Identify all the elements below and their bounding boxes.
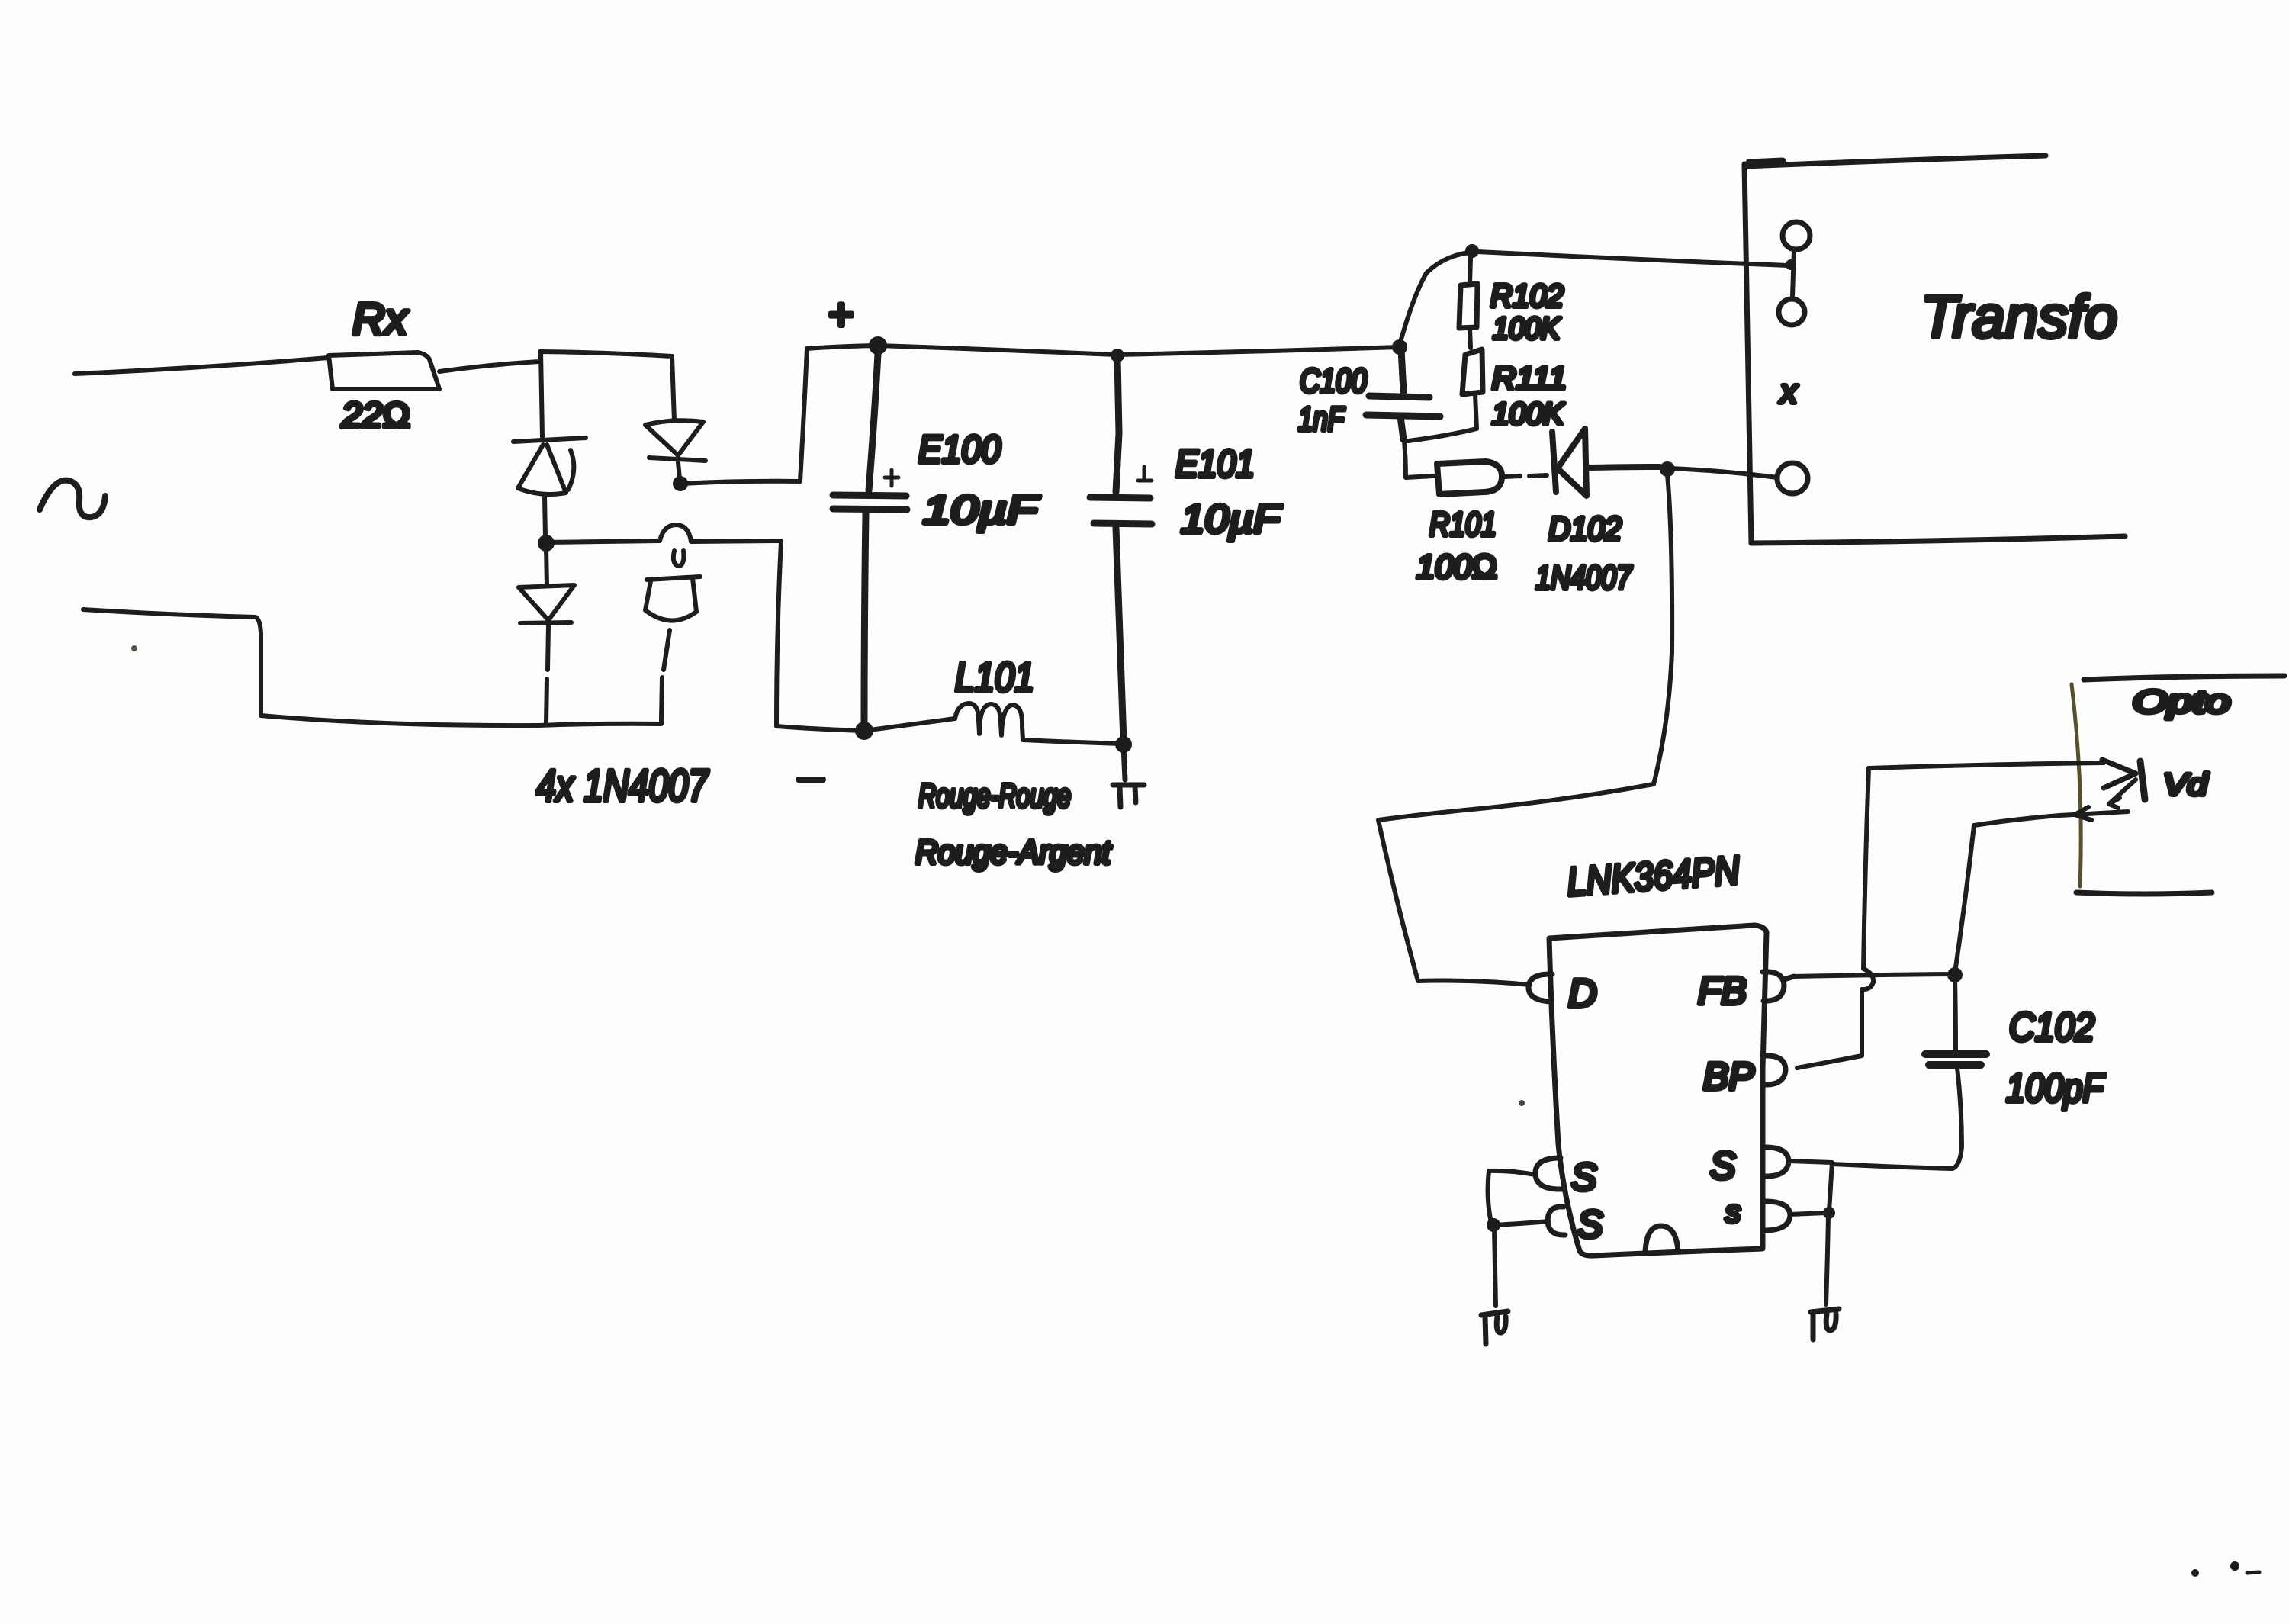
node: + rail junction bbox=[869, 336, 887, 355]
wire: C100 bottom to R101 bbox=[1404, 441, 1433, 478]
svg-text:100K: 100K bbox=[1492, 397, 1565, 431]
svg-text:1nF: 1nF bbox=[1298, 400, 1345, 438]
svg-text:BP: BP bbox=[1703, 1055, 1754, 1098]
svg-text:S: S bbox=[1710, 1144, 1735, 1187]
ground (left S) bbox=[1481, 1311, 1508, 1344]
node: bridge mid-right junction bbox=[673, 476, 688, 491]
svg-text:FB: FB bbox=[1698, 970, 1747, 1012]
minus sign bbox=[799, 777, 823, 783]
optocoupler LED cathode bar bbox=[2140, 761, 2145, 799]
bridge diode 1 (left top) bbox=[513, 438, 586, 494]
ground (filter) bbox=[1113, 746, 1144, 807]
capacitor E100 bbox=[833, 354, 907, 725]
svg-text:1N4007: 1N4007 bbox=[1535, 559, 1632, 597]
ground (right S) bbox=[1811, 1309, 1839, 1339]
svg-text:100pF: 100pF bbox=[2006, 1066, 2106, 1111]
wire: junction down to LNK D pin (long) bbox=[1378, 474, 1672, 985]
optocoupler Opto box bbox=[2084, 676, 2284, 680]
svg-text:Transfo: Transfo bbox=[1921, 283, 2117, 350]
IC pin S left-lower bump bbox=[1548, 1207, 1565, 1235]
transformer pin 1 bbox=[1783, 222, 1810, 249]
svg-text:S: S bbox=[1577, 1203, 1603, 1246]
svg-text:Vd: Vd bbox=[2163, 768, 2209, 802]
capacitor E101 bbox=[1090, 358, 1152, 741]
diode D102 bbox=[1552, 429, 1660, 496]
svg-text:4x 1N4007: 4x 1N4007 bbox=[536, 761, 709, 811]
IC notch bbox=[1645, 1226, 1678, 1253]
stray ink dot near IC label bbox=[1519, 1100, 1525, 1106]
svg-text:R111: R111 bbox=[1492, 360, 1567, 396]
wire: R101 to D102 (dashed look) bbox=[1505, 475, 1547, 477]
svg-text:R101: R101 bbox=[1429, 506, 1497, 543]
svg-text:S: S bbox=[1571, 1156, 1596, 1198]
node: C100 junction bbox=[1392, 339, 1407, 355]
AC source symbol ~ bbox=[40, 481, 105, 518]
IC pin S left-upper bump bbox=[1535, 1158, 1562, 1189]
node: E101 top junction bbox=[1111, 349, 1124, 362]
wire: bridge left branch upper bbox=[541, 352, 542, 437]
resistor Rx bbox=[329, 352, 439, 389]
wire: D1 to mid-left node bbox=[545, 495, 545, 539]
wire: Rx to bridge top bbox=[439, 362, 538, 371]
svg-text:L101: L101 bbox=[955, 654, 1034, 700]
node: bottom-right junction bbox=[1115, 736, 1132, 753]
IC U1 LNK364PN box bbox=[1549, 925, 1767, 1256]
svg-text:Opto: Opto bbox=[2133, 683, 2230, 719]
wire: FB junction up to opto return bbox=[1955, 825, 1974, 973]
wire: top rail (+ to C100 node) bbox=[807, 346, 1400, 355]
node: E100 bottom junction bbox=[855, 722, 873, 740]
resistor R111 bbox=[1462, 349, 1483, 394]
E100 polarity + bbox=[885, 470, 899, 486]
svg-text:E101: E101 bbox=[1175, 442, 1255, 485]
svg-text:R102: R102 bbox=[1490, 278, 1564, 314]
optocoupler LED anode wire + arrow bbox=[1869, 763, 2104, 768]
wire: AC input line 2 (bottom) with step bbox=[83, 609, 538, 725]
wire: minus down to bottom rail bbox=[776, 542, 781, 726]
svg-text:10µF: 10µF bbox=[1181, 497, 1283, 542]
node: bridge mid-left junction bbox=[538, 535, 555, 552]
wire: bridge + output to filter bbox=[682, 349, 807, 484]
wire: S right-upper pin to C102 return bbox=[1789, 1161, 1832, 1211]
wire: left S junction to ground bbox=[1494, 1228, 1496, 1306]
IC pin S right-lower bump bbox=[1763, 1201, 1790, 1230]
IC pin FB bump bbox=[1763, 972, 1794, 1001]
wire: junction to transformer pin bbox=[1477, 252, 1788, 265]
node: D102 output junction bbox=[1660, 461, 1675, 477]
svg-text:100K: 100K bbox=[1493, 312, 1561, 346]
resistor R102 bbox=[1470, 258, 1471, 284]
svg-text:10µF: 10µF bbox=[923, 488, 1040, 532]
bridge diode 3 (right top) bbox=[645, 420, 706, 479]
IC pin S right-upper bump bbox=[1763, 1147, 1789, 1176]
wire: left S pins tie bbox=[1488, 1171, 1548, 1225]
wire: bottom rail (minus) bbox=[776, 719, 955, 731]
svg-text:C102: C102 bbox=[2009, 1005, 2094, 1050]
optocoupler return wire with arrowhead bbox=[1974, 807, 2128, 825]
svg-text:Rx: Rx bbox=[352, 294, 409, 344]
stray ink dot near AC bottom wire bbox=[131, 645, 137, 651]
wire: s right-lower pin to ground bbox=[1790, 1213, 1828, 1304]
wire: D102 anode to transfo bottom pin bbox=[1670, 468, 1777, 478]
svg-text:E100: E100 bbox=[918, 428, 1001, 471]
bridge diode 4 (right bottom) bbox=[645, 551, 700, 722]
wire: C100 node up to R102 node bbox=[1400, 252, 1469, 345]
node: right S junction bbox=[1823, 1207, 1835, 1219]
svg-text:C100: C100 bbox=[1300, 362, 1367, 400]
transformer pin 3 bbox=[1777, 463, 1808, 494]
svg-text:100Ω: 100Ω bbox=[1416, 548, 1497, 586]
optocoupler light arrow bbox=[2109, 780, 2136, 808]
node: R102 top junction bbox=[1465, 244, 1479, 258]
svg-text:+: + bbox=[828, 290, 854, 339]
transformer pin 2 bbox=[1779, 299, 1805, 325]
capacitor C100 bbox=[1366, 349, 1440, 439]
bridge diode 2 (left bottom) bbox=[519, 548, 574, 723]
node: transformer top pin junction bbox=[1786, 259, 1796, 270]
capacitor C102 bbox=[1925, 1054, 1986, 1065]
wire: bridge bottom rail bbox=[538, 690, 662, 725]
svg-text:D: D bbox=[1568, 972, 1597, 1016]
svg-text:Rouge-Argent: Rouge-Argent bbox=[915, 834, 1112, 871]
svg-text:s: s bbox=[1725, 1195, 1741, 1229]
svg-text:Rouge-Rouge: Rouge-Rouge bbox=[918, 777, 1071, 815]
wire: bridge right branch upper bbox=[672, 356, 674, 421]
svg-text:22Ω: 22Ω bbox=[341, 395, 410, 435]
wire: FB pin to junction bbox=[1794, 974, 1951, 976]
svg-text:D102: D102 bbox=[1548, 510, 1622, 548]
inductor L101 bbox=[955, 703, 1121, 744]
svg-text:x: x bbox=[1779, 373, 1799, 410]
E101 polarity mark bbox=[1138, 467, 1152, 481]
wire: AC input line 1 (top) bbox=[75, 358, 328, 374]
wire: FB junction down to C102 bbox=[1955, 977, 1956, 1050]
wire: BP to opto (vertical with hop over FB wire) bbox=[1797, 768, 1873, 1068]
transformer pin 1-2 link bbox=[1792, 250, 1794, 296]
wire: bridge top rail bbox=[540, 352, 672, 362]
resistor R101 bbox=[1437, 461, 1502, 494]
IC pin D bump bbox=[1529, 974, 1552, 1002]
IC pin BP bump bbox=[1763, 1056, 1786, 1085]
wire: mid-left to filter minus (with hop over right branch) bbox=[546, 525, 781, 542]
transformer Transfo box bbox=[1744, 164, 1751, 543]
misc ink dots bottom right bbox=[2191, 1569, 2199, 1577]
node: left S junction bbox=[1487, 1218, 1500, 1232]
node: FB junction bbox=[1947, 967, 1963, 982]
